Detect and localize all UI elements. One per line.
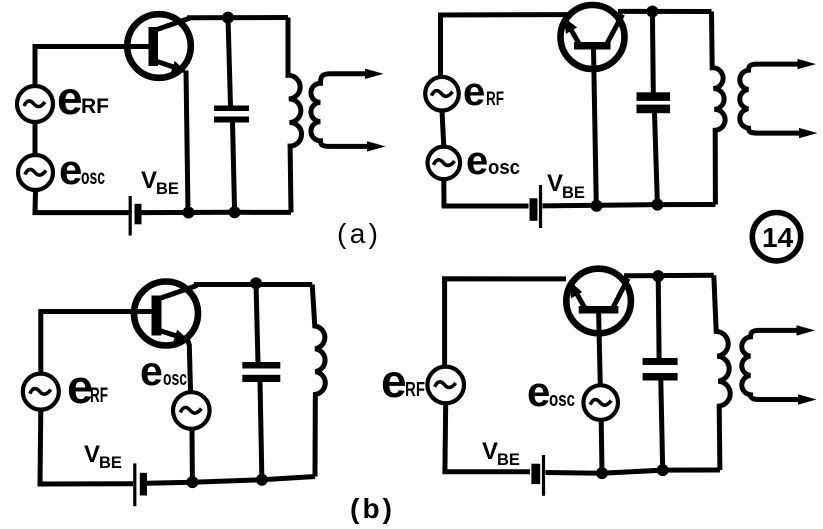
node B cap-bottom [651,199,663,211]
inductor L1 secondary [311,74,377,147]
wire D output-arrow-top [797,325,816,335]
inductor L4 primary [714,275,730,470]
wire B cap-top-lead [650,12,656,94]
wire A emitter [186,71,188,213]
node B cap-top [646,6,658,18]
transistor Q4 [566,269,631,334]
inductor L2 secondary [740,64,808,133]
wire A eRF-eosc [33,122,38,155]
node C cap-top [250,277,262,289]
capacitor C1 [214,106,249,123]
wire B output-arrow-bottom [799,128,818,138]
label eosc C [140,348,187,394]
source eRF B [425,77,459,111]
inductor L3 [312,285,325,477]
node D base-bottom [596,467,608,479]
label eRF B [463,70,504,114]
wire C eosc-bottom-lead [190,429,195,483]
svg-text:V: V [141,167,157,194]
battery VBE B [530,185,541,228]
wire D bottom [546,470,720,473]
node B base-bottom [591,200,603,212]
wire B top-right [618,9,712,14]
source eosc C [173,392,210,429]
battery VBE D [531,455,543,496]
wire C cap-bottom-lead [260,382,262,480]
label eosc D [527,368,575,415]
wire C emitter-to-eosc [187,339,191,392]
inductor L4 secondary [742,330,806,399]
source eosc B [428,147,461,180]
wire B left-bottom [444,179,529,206]
wire D output-arrow-bottom [798,394,817,404]
node C eosc-bottom [186,476,198,488]
svg-text:osc: osc [549,389,575,411]
wire A top [187,15,288,20]
node D cap-top [652,270,664,282]
svg-text:osc: osc [163,368,187,390]
wire A bottom [142,210,292,215]
wire D base-to-eosc [599,312,601,385]
wire B top-left [441,15,570,76]
label eRF A [57,72,109,124]
svg-text:e: e [57,72,83,124]
svg-text:14: 14 [762,222,794,253]
svg-text:BE: BE [497,451,520,469]
source eosc D [583,385,618,420]
svg-text:(b): (b) [350,493,392,524]
wire D top-right [624,273,714,279]
source eRF D [427,367,464,404]
svg-text:V: V [547,170,563,197]
wire C top [194,282,312,287]
label eRF C [67,360,108,413]
svg-text:RF: RF [405,379,425,401]
wire base C [41,312,157,374]
svg-text:e: e [140,348,163,394]
svg-text:BE: BE [156,180,179,198]
wire B output-arrow-top [798,59,817,69]
label eRF D [381,355,425,407]
transistor Q3 [134,282,198,346]
source eosc A [18,155,53,190]
battery VBE A [130,196,141,236]
source eRF C [23,374,59,410]
svg-text:e: e [463,70,485,114]
svg-text:e: e [381,355,407,407]
svg-text:RF: RF [90,384,108,407]
wire A left-bottom [35,190,129,213]
wire base A [35,47,150,85]
inductor L1 primary [288,18,302,213]
inductor L2 primary [712,12,726,205]
svg-text:(a): (a) [337,218,378,249]
svg-text:RF: RF [81,95,109,118]
node A collector-top [222,12,234,24]
wire B eRF-eosc [442,111,444,148]
svg-text:V: V [84,441,100,468]
wire A output-arrow-bottom [367,141,386,151]
battery VBE C [135,463,147,506]
node C cap-bottom [256,474,268,486]
wire D cap-bottom-lead [661,380,663,470]
capacitor C3 [242,362,280,382]
transistor Q1 [127,14,191,78]
wire C bottom [147,477,315,484]
label eosc B [466,139,520,183]
svg-text:BE: BE [99,454,122,472]
wire A output-arrow-top [365,69,384,79]
svg-text:V: V [482,438,498,465]
transistor Q2 [561,5,625,69]
node A emitter-bottom [183,207,195,219]
wire B base-lead [594,48,597,206]
label VBE C [84,441,122,472]
capacitor C2 [637,92,671,113]
svg-text:e: e [527,368,550,415]
label eosc A [59,146,105,193]
wire B cap-bottom-lead [655,113,658,205]
svg-text:e: e [466,139,488,183]
svg-text:BE: BE [562,184,585,202]
wire C left-bottom [40,410,133,484]
wire D left-bottom [445,403,530,472]
capacitor C4 [643,358,678,381]
wire D cap-top-lead [656,276,662,358]
wire D eosc-bottom-lead [599,420,605,473]
source eRF A [17,86,53,122]
wire A cap-bottom-lead [233,122,235,212]
label VBE D [482,438,520,469]
wire C cap-top-lead [256,283,258,363]
svg-text:e: e [59,146,82,193]
wire A cap-top-lead [228,18,231,106]
node A cap-bottom [229,206,241,218]
label VBE B [547,170,585,202]
wire B bottom [543,205,716,206]
svg-text:osc: osc [488,157,520,179]
svg-text:osc: osc [81,166,105,189]
figure number 14 [752,213,800,261]
wire D top-left [445,279,566,367]
label VBE A [141,167,179,198]
svg-text:RF: RF [486,89,504,110]
node D cap-bottom [657,464,669,476]
